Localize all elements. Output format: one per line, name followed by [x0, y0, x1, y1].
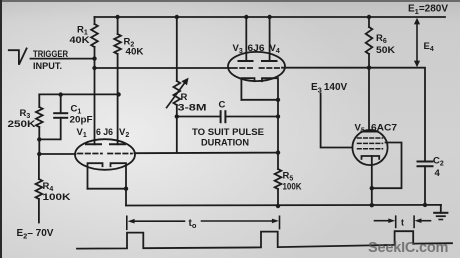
svg-text:100K: 100K [283, 182, 302, 193]
svg-text:6J6: 6J6 [248, 43, 265, 54]
svg-text:40K: 40K [70, 35, 90, 46]
svg-text:6 J6: 6 J6 [96, 127, 113, 138]
svg-text:R: R [181, 92, 188, 103]
svg-text:TO SUIT PULSE: TO SUIT PULSE [192, 127, 264, 138]
svg-text:250K: 250K [8, 119, 36, 130]
svg-text:40K: 40K [126, 47, 144, 58]
svg-text:100K: 100K [43, 192, 71, 203]
svg-text:C: C [219, 100, 226, 111]
svg-text:E3 140V: E3 140V [311, 82, 348, 95]
svg-text:50K: 50K [376, 45, 395, 56]
svg-text:6AC7: 6AC7 [371, 123, 397, 134]
svg-text:t: t [401, 218, 404, 228]
svg-text:3-8M: 3-8M [178, 103, 207, 113]
svg-text:20pF: 20pF [70, 115, 93, 126]
svg-text:E2– 70V: E2– 70V [17, 228, 54, 241]
svg-text:TRIGGER: TRIGGER [33, 49, 68, 60]
svg-text:4: 4 [435, 168, 441, 179]
svg-text:E1=280V: E1=280V [408, 4, 448, 17]
svg-text:DURATION: DURATION [201, 138, 249, 149]
svg-text:INPUT.: INPUT. [33, 61, 62, 72]
